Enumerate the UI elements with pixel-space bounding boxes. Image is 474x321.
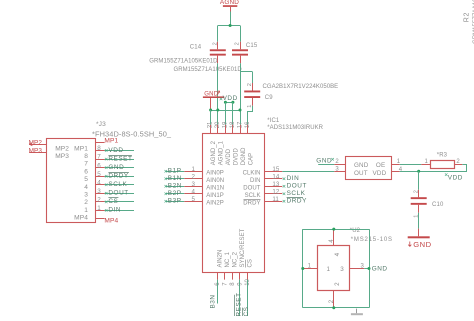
svg-text:CS: CS <box>247 259 253 267</box>
svg-text:20: 20 <box>215 121 221 128</box>
svg-text:C10: C10 <box>432 202 444 208</box>
svg-text:MP4: MP4 <box>74 215 88 222</box>
svg-text:1: 1 <box>97 205 101 212</box>
svg-text:5: 5 <box>97 171 101 178</box>
wire C14 to GND rail <box>217 63 219 125</box>
IC1 top pin 18 (DVDD) <box>232 125 234 134</box>
wire net RESET <box>105 159 134 161</box>
oscillator pin 2 (GND) <box>334 164 345 166</box>
svg-text:12: 12 <box>272 189 279 196</box>
wire AGND split horizontal <box>218 25 240 27</box>
wire U2 loop bottom <box>303 307 369 309</box>
junction U2 pin2 / loop bottom <box>332 306 335 309</box>
J3 right pin 2 <box>95 201 104 203</box>
wire net DIN <box>105 210 134 212</box>
svg-text:2: 2 <box>414 190 420 193</box>
svg-text:C14: C14 <box>190 45 202 51</box>
junction U2 pin1 / loop left <box>301 267 304 270</box>
net label B2P <box>165 190 182 197</box>
wire U2 pin3 to GND <box>364 268 369 270</box>
wire C15 branch to C9 <box>240 71 252 73</box>
J3 right pin 1 <box>95 210 104 212</box>
wire net CS <box>105 201 134 203</box>
svg-text:DIN: DIN <box>108 207 121 214</box>
net label GND (oscillator) <box>316 157 334 164</box>
svg-text:4: 4 <box>97 179 101 186</box>
svg-text:GND: GND <box>372 265 388 272</box>
junction VDD / pin18 <box>231 101 234 104</box>
wire C15 branch to pin17 <box>240 72 242 125</box>
wire net SCLK <box>105 184 134 186</box>
junction U2 pin3 / loop right <box>368 267 371 270</box>
IC1 right pin 11 (DRDY) <box>264 201 282 203</box>
net label GND <box>105 164 124 171</box>
IC1 bottom pin 8 (NC_2) <box>232 272 234 280</box>
junction GND rail / C14 / pin20 <box>216 109 219 112</box>
svg-text:VDD: VDD <box>108 147 123 154</box>
svg-text:OE: OE <box>376 162 385 169</box>
svg-text:8: 8 <box>97 145 101 152</box>
svg-text:2: 2 <box>235 42 241 45</box>
resistor R3 <box>421 161 462 169</box>
net label SCLK <box>105 181 128 188</box>
svg-text:AIN0N: AIN0N <box>206 178 224 184</box>
svg-text:MP2: MP2 <box>29 139 43 146</box>
IC1 top pin 21 (AGND_2) <box>210 125 212 134</box>
svg-text:7: 7 <box>97 154 101 161</box>
svg-text:AIN1N: AIN1N <box>206 185 224 191</box>
svg-text:SCLK: SCLK <box>108 181 127 188</box>
wire pin18 vertical <box>232 102 234 125</box>
IC1 top pin 20 (AGND_1) <box>217 125 219 134</box>
J3 right pin 8 <box>95 150 104 152</box>
svg-text:17: 17 <box>237 121 243 128</box>
svg-text:MP2: MP2 <box>55 145 69 152</box>
svg-text:4: 4 <box>334 252 341 256</box>
svg-text:AGND_2: AGND_2 <box>211 140 217 165</box>
svg-text:13: 13 <box>272 181 279 188</box>
svg-text:R2: R2 <box>464 12 471 23</box>
op-amp/ADC IC1 body <box>203 134 265 273</box>
supply symbol AGND (top) <box>220 0 239 12</box>
IC1 right pin 12 (SCLK) <box>264 193 282 195</box>
IC1 right pin 14 (DIN) <box>264 178 282 180</box>
wire OE to R3 <box>400 164 422 166</box>
IC1 top pin 17 (DGND) <box>240 125 242 134</box>
svg-text:AVDD: AVDD <box>226 148 232 165</box>
svg-text:B2P: B2P <box>168 190 182 197</box>
IC1 top pin 19 (AVDD) <box>225 125 227 134</box>
net label RESET <box>235 292 243 316</box>
svg-text:14: 14 <box>272 174 279 181</box>
wire U2 loop left <box>302 229 304 308</box>
switch U2 body <box>318 246 350 291</box>
svg-text:MP1: MP1 <box>74 145 88 152</box>
svg-text:MP3: MP3 <box>55 153 69 160</box>
svg-text:5: 5 <box>84 176 88 183</box>
net label CS <box>105 198 119 206</box>
svg-text:11: 11 <box>272 196 279 203</box>
net label DRDY <box>283 198 307 205</box>
svg-text:B1N: B1N <box>168 175 182 182</box>
J3 right pin 3 <box>95 193 104 195</box>
svg-text:CLKIN: CLKIN <box>243 170 261 176</box>
svg-text:DIN: DIN <box>250 178 260 184</box>
net label CS <box>243 307 251 317</box>
IC1 left pin 1 (AIN0P) <box>184 171 202 173</box>
svg-text:3: 3 <box>192 181 196 188</box>
wire VDD <box>225 102 233 104</box>
svg-text:2: 2 <box>192 174 196 181</box>
ground symbol (gray, below U2) <box>351 309 363 316</box>
junction U2 pin4 / loop top <box>332 228 335 231</box>
IC1 top pin 16 (CAP) <box>247 125 249 134</box>
junction GND rail / C15 / pin17 <box>239 109 242 112</box>
svg-text:CAP: CAP <box>249 153 255 166</box>
net label VDD <box>105 147 124 154</box>
svg-text:GRM155Z71A105KE01D: GRM155Z71A105KE01D <box>174 67 243 73</box>
svg-text:C15: C15 <box>246 43 258 49</box>
svg-text:GND: GND <box>316 157 332 164</box>
wire GND to oscillator <box>318 164 334 166</box>
wire net B2N <box>166 186 184 188</box>
wire net B3P <box>166 201 184 203</box>
wire net CS (pin 10) <box>247 280 249 316</box>
wire to C9 top <box>252 72 254 84</box>
net label DIN <box>283 175 300 182</box>
svg-text:6: 6 <box>84 168 88 175</box>
svg-text:DRDY: DRDY <box>287 198 307 205</box>
svg-text:AIN1P: AIN1P <box>206 193 224 199</box>
svg-text:MP4: MP4 <box>104 218 118 225</box>
wire net RESET (pin 9) <box>239 280 241 316</box>
svg-text:DOUT: DOUT <box>287 183 307 190</box>
wire CLKIN to oscillator OUT <box>282 171 334 173</box>
svg-text:B1P: B1P <box>168 168 182 175</box>
svg-text:NC_1: NC_1 <box>225 251 231 267</box>
svg-text:RESET: RESET <box>108 155 132 162</box>
svg-text:1: 1 <box>327 266 331 273</box>
net label VDD (AVDD/DVDD) <box>220 95 238 102</box>
J3 left pin MP3 <box>29 152 46 154</box>
svg-text:2: 2 <box>247 83 253 86</box>
svg-text:8: 8 <box>84 153 88 160</box>
svg-text:7: 7 <box>84 161 88 168</box>
svg-text:3: 3 <box>97 188 101 195</box>
svg-text:2: 2 <box>212 42 218 45</box>
oscillator U1 body <box>346 157 392 180</box>
IC1 right pin 13 (DOUT) <box>264 186 282 188</box>
J3 right pin 4 <box>95 184 104 186</box>
svg-text:16: 16 <box>245 121 251 128</box>
svg-text:SYNC/RESET: SYNC/RESET <box>240 228 246 267</box>
svg-text:GND: GND <box>413 240 431 249</box>
svg-text:*ADS131M03IRUKR: *ADS131M03IRUKR <box>267 125 323 131</box>
oscillator pin 1 (OE) <box>392 164 400 166</box>
IC1 left pin 2 (AIN0N) <box>184 178 202 180</box>
net label DIN <box>105 207 121 214</box>
J3 right pin MP4 <box>95 218 104 220</box>
svg-text:18: 18 <box>230 121 236 128</box>
net label B1P <box>165 168 182 175</box>
svg-text:DRDY: DRDY <box>108 172 128 179</box>
IC1 bottom pin 7 (NC_1) <box>224 272 226 280</box>
J3 right pin MP1 <box>95 142 104 144</box>
J3 left pin MP2 <box>29 143 46 146</box>
svg-text:CS: CS <box>108 198 118 205</box>
wire AGND vertical <box>230 12 232 26</box>
IC1 left pin 4 (AIN1P) <box>184 193 202 195</box>
IC1 bottom pin 6 (AIN2N) <box>217 272 219 280</box>
U2 pin 3 (right) <box>350 268 365 270</box>
wire net GND <box>105 167 134 169</box>
svg-text:VDD: VDD <box>373 170 387 177</box>
oscillator pin 3 (OUT) <box>334 171 345 173</box>
svg-text:DVDD: DVDD <box>234 147 240 165</box>
wire to C15 top <box>240 26 242 42</box>
svg-text:GND: GND <box>354 162 369 169</box>
J3 right pin 6 <box>95 167 104 169</box>
svg-text:GND: GND <box>108 164 124 171</box>
wire net DRDY <box>105 176 134 178</box>
svg-text:6: 6 <box>97 162 101 169</box>
wire net VDD <box>105 150 134 152</box>
net label DRDY <box>105 172 129 179</box>
svg-text:3: 3 <box>84 192 88 199</box>
svg-text:DRDY: DRDY <box>243 200 260 206</box>
svg-text:*J3: *J3 <box>96 121 106 128</box>
svg-text:DIN: DIN <box>287 175 300 182</box>
svg-text:3: 3 <box>340 266 344 273</box>
svg-text:AGND: AGND <box>220 0 239 6</box>
IC1 right pin 15 (CLKIN) <box>264 171 282 173</box>
net label SCLK <box>283 190 306 197</box>
svg-text:DGND: DGND <box>241 147 247 165</box>
svg-text:2: 2 <box>84 199 88 206</box>
svg-text:15: 15 <box>272 166 279 173</box>
svg-text:2: 2 <box>97 196 101 203</box>
capacitor C10 <box>411 190 427 213</box>
wire pin19 vertical <box>225 102 227 125</box>
svg-text:VDD: VDD <box>448 175 463 182</box>
svg-text:OUT: OUT <box>354 170 368 177</box>
svg-text:2: 2 <box>334 282 341 286</box>
svg-text:AGND_1: AGND_1 <box>219 140 225 165</box>
svg-text:1: 1 <box>84 207 88 214</box>
wire U2 loop top <box>303 229 369 231</box>
wire C10 to GND <box>418 213 420 229</box>
net label B1N <box>165 175 182 182</box>
net label VDD (oscillator) <box>445 173 463 181</box>
svg-text:DOUT: DOUT <box>243 185 260 191</box>
IC1 pin name CS overline <box>245 260 247 268</box>
svg-text:RESET: RESET <box>236 292 243 316</box>
IC1 bottom pin 9 (SYNC/RESET) <box>239 272 241 280</box>
GND rail wire <box>211 110 240 112</box>
svg-text:B3N: B3N <box>210 294 217 308</box>
svg-text:CS: CS <box>243 307 250 316</box>
J3 right pin 7 <box>95 159 104 161</box>
J3 right pin 5 <box>95 176 104 178</box>
IC1 left pin 5 (AIN2P) <box>184 201 202 203</box>
U2 pin 1 (left) <box>303 268 317 270</box>
wire C15 down <box>240 63 242 71</box>
wire net B3N (pin 6) <box>217 280 219 304</box>
svg-text:B2N: B2N <box>168 183 182 190</box>
wire U2 loop right <box>369 229 371 308</box>
wire C9 bottom to CAP pin 16 <box>248 106 253 125</box>
svg-text:C9: C9 <box>265 95 273 101</box>
svg-text:MP1: MP1 <box>104 138 118 145</box>
oscillator pin 4 (VDD) <box>392 171 400 173</box>
IC1 pin name DRDY overline <box>244 199 261 201</box>
U2 pin 2 (bottom) <box>333 291 335 308</box>
IC1 bottom pin 10 (CS) <box>247 272 249 280</box>
net label B2N <box>165 183 182 190</box>
svg-text:SCLK: SCLK <box>245 193 261 199</box>
capacitor C9 <box>244 83 260 106</box>
svg-text:DOUT: DOUT <box>108 190 128 197</box>
wire net B2P <box>166 193 184 195</box>
U2 pin 4 (top) <box>333 229 335 245</box>
svg-text:AIN0P: AIN0P <box>206 170 224 176</box>
svg-text:*MS215-10S: *MS215-10S <box>351 237 393 243</box>
IC1 left pin 3 (AIN1N) <box>184 186 202 188</box>
svg-text:1: 1 <box>192 166 196 173</box>
svg-text:AIN2N: AIN2N <box>217 250 223 268</box>
svg-text:AIN2P: AIN2P <box>206 200 224 206</box>
net label DOUT <box>283 183 307 190</box>
junction VDD / C10 <box>417 170 420 173</box>
svg-text:GRM155Z71A105KE01D: GRM155Z71A105KE01D <box>149 59 218 65</box>
svg-text:21: 21 <box>207 121 213 128</box>
wire net B1P <box>166 171 184 173</box>
capacitor C14 <box>210 42 226 63</box>
svg-text:5: 5 <box>192 196 196 203</box>
capacitor C15 <box>232 42 248 63</box>
connector J3 body <box>47 139 96 223</box>
ground symbol GND (below C10) <box>408 229 432 249</box>
svg-text:B3P: B3P <box>168 198 182 205</box>
supply symbol GND (above IC1) <box>203 91 224 110</box>
wire R3 to VDD net <box>400 165 467 172</box>
wire net B1N <box>166 178 184 180</box>
wire to C14 top <box>217 26 219 42</box>
svg-text:NC_2: NC_2 <box>232 251 238 267</box>
svg-text:19: 19 <box>222 121 228 128</box>
svg-text:*R3: *R3 <box>437 153 448 159</box>
junction GND rail / pin21 <box>209 109 212 112</box>
net label RESET <box>105 155 133 162</box>
wire VDD to C10 <box>418 171 420 190</box>
svg-text:4: 4 <box>84 184 88 191</box>
svg-text:SCLK: SCLK <box>287 190 306 197</box>
svg-text:MP3: MP3 <box>29 148 43 155</box>
svg-text:*IC1: *IC1 <box>267 118 280 124</box>
wire net DOUT <box>105 193 134 195</box>
junction VDD / pin19 <box>224 101 227 104</box>
svg-text:4: 4 <box>192 189 196 196</box>
junction AGND split <box>229 24 232 27</box>
net label DOUT <box>105 190 129 197</box>
svg-text:CGA2B1X7R1V224K050BE: CGA2B1X7R1V224K050BE <box>263 84 339 90</box>
wire pin21 up <box>210 110 212 125</box>
net label B3P <box>165 198 182 205</box>
